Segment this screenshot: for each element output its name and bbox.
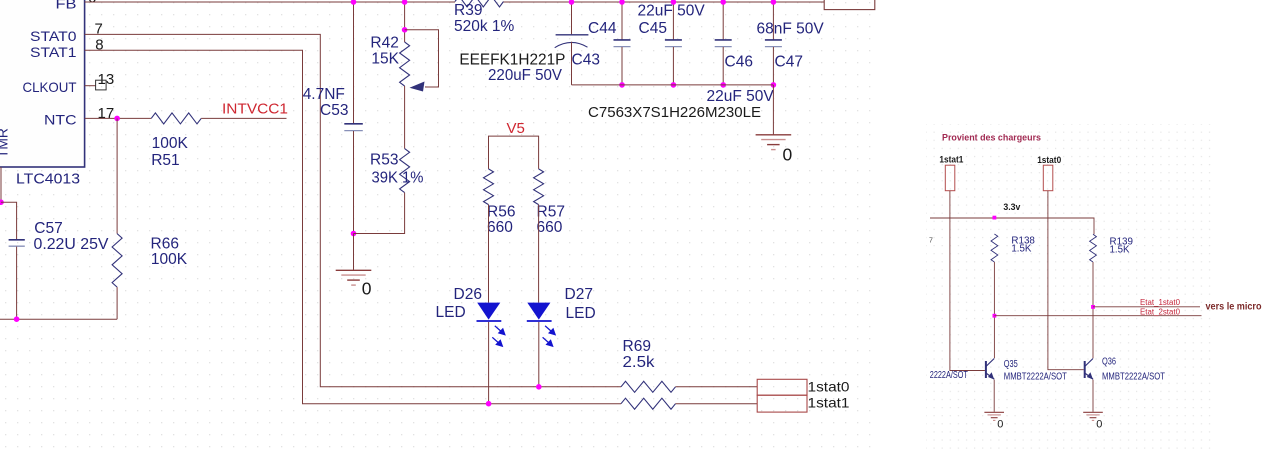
svg-text:MMBT2222A/SOT: MMBT2222A/SOT xyxy=(1004,372,1067,383)
svg-text:C57: C57 xyxy=(34,220,62,237)
svg-text:C43: C43 xyxy=(572,52,600,69)
off-page connector box top right xyxy=(824,0,875,10)
junction node C53 top xyxy=(351,0,357,5)
pin 13 unconnected square xyxy=(96,80,107,90)
svg-text:Etat_1stat0: Etat_1stat0 xyxy=(1140,298,1181,307)
wire to INTVCC1 xyxy=(201,117,286,119)
wire 1stat0 to Q36 base xyxy=(1048,191,1084,370)
grid dots sub sheet xyxy=(926,124,1212,452)
wire bottom left rail xyxy=(0,318,117,320)
svg-text:Provient des chargeurs: Provient des chargeurs xyxy=(942,132,1041,143)
svg-text:1stat1: 1stat1 xyxy=(808,394,850,410)
svg-text:R66: R66 xyxy=(151,236,179,253)
junction node R42 wiper xyxy=(402,27,408,33)
resistor R138 xyxy=(991,234,998,262)
svg-text:D27: D27 xyxy=(565,286,593,303)
ground symbol Q36 xyxy=(1083,411,1103,413)
off-page connector box 1stat0 xyxy=(757,379,807,395)
wire ground stub right xyxy=(772,85,774,135)
LED D26 light arrows xyxy=(492,326,505,346)
svg-text:C45: C45 xyxy=(639,20,667,37)
resistor R51 xyxy=(151,113,201,124)
wire R56 to D26 xyxy=(488,205,490,303)
pin TMR stub xyxy=(0,167,2,202)
svg-text:1.5K: 1.5K xyxy=(1110,244,1131,255)
wire NTC down to R66 xyxy=(116,118,118,233)
junction node TMR xyxy=(0,199,4,205)
wire C53 top xyxy=(353,2,355,123)
wire R57 to D27 xyxy=(538,205,540,303)
wire STAT1 to box xyxy=(676,403,758,405)
svg-text:R39: R39 xyxy=(454,2,482,19)
capacitor C46 xyxy=(722,2,724,40)
svg-text:NTC: NTC xyxy=(44,112,77,127)
wire between R42 R53 xyxy=(404,86,406,149)
capacitor C43 plate xyxy=(556,34,589,36)
svg-text:4.7NF: 4.7NF xyxy=(303,86,345,103)
svg-text:C47: C47 xyxy=(775,53,803,70)
off-page connector box 1stat1 xyxy=(757,395,807,412)
svg-text:39K 1%: 39K 1% xyxy=(372,170,424,187)
svg-text:R42: R42 xyxy=(370,34,398,51)
resistor R139 xyxy=(1090,234,1097,262)
svg-text:6: 6 xyxy=(88,0,96,7)
svg-text:C44: C44 xyxy=(588,20,617,37)
svg-text:TMR: TMR xyxy=(0,128,11,158)
wire NTC pin17 xyxy=(85,117,152,119)
wire V5 bracket xyxy=(489,136,539,169)
svg-text:LTC4013: LTC4013 xyxy=(16,171,80,188)
svg-text:EEEFK1H221P: EEEFK1H221P xyxy=(459,52,565,69)
wire net Etat_1stat0 xyxy=(1093,306,1200,308)
wire Q36 emitter to ground xyxy=(1092,380,1094,412)
svg-text:22uF 50V: 22uF 50V xyxy=(707,88,775,105)
capacitor C53 xyxy=(344,123,363,125)
resistor R42 xyxy=(400,42,410,86)
svg-text:22uF 50V: 22uF 50V xyxy=(638,3,706,20)
junction node C47 top xyxy=(771,0,777,5)
svg-text:1stat0: 1stat0 xyxy=(1037,155,1061,165)
ground symbol 0 (right) xyxy=(756,134,792,136)
junction node C46 bottom xyxy=(720,82,726,88)
svg-text:C7563X7S1H226M230LE: C7563X7S1H226M230LE xyxy=(588,104,761,121)
junction node C45 top xyxy=(671,0,677,5)
wire 1stat1 to Q35 base xyxy=(950,191,985,371)
junction node pin17 xyxy=(114,116,120,122)
svg-text:CLKOUT: CLKOUT xyxy=(23,80,78,95)
svg-text:220uF 50V: 220uF 50V xyxy=(488,67,563,84)
svg-text:STAT0: STAT0 xyxy=(30,29,77,44)
op-amp U1 LTC4013 IC body xyxy=(0,0,85,167)
junction node D27 bottom xyxy=(536,384,542,390)
wire C57 bottom xyxy=(16,247,18,320)
LED D27 cathode bar xyxy=(527,320,552,322)
LED D27 triangle xyxy=(527,303,550,320)
svg-text:R57: R57 xyxy=(537,203,565,220)
svg-text:0.22U 25V: 0.22U 25V xyxy=(34,236,110,253)
resistor R56 xyxy=(484,169,494,205)
wire net Etat_2stat0 xyxy=(994,315,1201,317)
wire C43 top lead xyxy=(571,2,573,34)
port box 1stat1 (sub) xyxy=(945,165,955,191)
wire D27 down xyxy=(538,322,540,387)
resistor R57 xyxy=(534,169,544,205)
wire FB rail right segment xyxy=(504,1,825,3)
capacitor C45 xyxy=(672,2,674,40)
svg-text:C46: C46 xyxy=(725,53,753,70)
svg-text:660: 660 xyxy=(487,219,513,236)
wire ground stub C53 xyxy=(353,234,355,270)
wire R42 top xyxy=(404,2,406,42)
transistor Q36 xyxy=(1084,361,1086,378)
svg-text:R56: R56 xyxy=(487,203,515,220)
resistor R39 xyxy=(455,0,504,7)
svg-text:8: 8 xyxy=(95,36,103,53)
svg-text:FB: FB xyxy=(56,0,77,12)
resistor R69 upper element xyxy=(621,381,676,392)
svg-text:100K: 100K xyxy=(151,251,188,268)
LED D26 triangle xyxy=(477,303,500,320)
svg-text:C53: C53 xyxy=(320,102,348,119)
wire Q35 emitter to ground xyxy=(993,380,995,412)
svg-text:660: 660 xyxy=(537,219,563,236)
svg-text:17: 17 xyxy=(98,105,115,122)
capacitor C44 xyxy=(621,2,623,40)
svg-text:R51: R51 xyxy=(151,152,179,169)
svg-text:100K: 100K xyxy=(152,135,189,152)
svg-text:0: 0 xyxy=(362,278,372,298)
svg-text:0: 0 xyxy=(1096,418,1102,430)
port box 1stat0 (sub) xyxy=(1043,165,1053,191)
junction node Etat_2stat0 xyxy=(993,314,997,318)
svg-text:68nF 50V: 68nF 50V xyxy=(757,20,825,37)
wire cap bank bottom rail xyxy=(572,84,774,86)
junction node Etat_1stat0 xyxy=(1091,305,1095,309)
svg-text:7: 7 xyxy=(929,238,933,245)
capacitor C43 curved plate xyxy=(555,42,588,47)
pin 13 stub xyxy=(85,85,96,87)
wire C43 bottom lead xyxy=(571,42,573,85)
svg-text:R69: R69 xyxy=(623,338,651,355)
svg-text:1stat0: 1stat0 xyxy=(808,378,850,394)
svg-text:15K: 15K xyxy=(371,51,399,68)
wiper wire loop xyxy=(405,30,439,87)
ground symbol Q35 xyxy=(984,411,1004,413)
wire STAT0 pin7 net xyxy=(85,34,621,386)
resistor R66 xyxy=(112,234,122,288)
junction node C43 top xyxy=(569,0,575,5)
svg-text:R53: R53 xyxy=(370,151,398,168)
svg-text:Q36: Q36 xyxy=(1102,356,1116,367)
LED D26 cathode bar xyxy=(477,320,502,322)
junction node C47 bottom xyxy=(771,82,777,88)
junction node D26 bottom xyxy=(486,401,492,407)
wire FB rail left segment xyxy=(85,1,455,3)
svg-text:2222A/SOT: 2222A/SOT xyxy=(930,370,968,381)
svg-text:INTVCC1: INTVCC1 xyxy=(222,102,288,118)
wire STAT1 pin8 net xyxy=(85,50,621,403)
svg-text:LED: LED xyxy=(566,305,596,322)
junction node C44 top xyxy=(619,0,625,5)
svg-text:2.5k: 2.5k xyxy=(623,354,655,371)
wire R53 bottom to junction xyxy=(354,193,405,234)
svg-text:Q35: Q35 xyxy=(1004,359,1018,370)
svg-text:3.3v: 3.3v xyxy=(1003,202,1021,212)
ground symbol 0 (left) xyxy=(336,269,372,271)
junction node C53/R53 xyxy=(351,231,357,237)
wire R66 bottom xyxy=(116,287,118,319)
svg-text:1stat1: 1stat1 xyxy=(939,154,963,164)
transistor Q35 xyxy=(985,361,987,378)
wiper arrow xyxy=(410,82,425,92)
wire 3.3v rail xyxy=(930,218,1094,234)
LED D27 light arrows xyxy=(543,326,556,346)
svg-text:0: 0 xyxy=(997,418,1003,430)
wire R138 to Q35 collector xyxy=(993,262,995,358)
wire D26 down xyxy=(488,322,490,404)
capacitor C47 xyxy=(772,2,774,40)
svg-text:520k 1%: 520k 1% xyxy=(454,18,515,35)
svg-text:0: 0 xyxy=(783,144,793,164)
junction node R42 top rail xyxy=(402,0,408,5)
junction node C46 top xyxy=(720,0,726,5)
junction node C45 bottom xyxy=(671,82,677,88)
svg-text:D26: D26 xyxy=(454,286,482,303)
svg-text:V5: V5 xyxy=(507,120,525,137)
svg-text:1.5K: 1.5K xyxy=(1011,244,1032,255)
svg-text:vers le micro: vers le micro xyxy=(1206,302,1262,313)
junction node C44 bottom xyxy=(619,82,625,88)
wire to C57 xyxy=(1,202,17,239)
grid dots main sheet xyxy=(0,0,874,452)
wire C53 bottom xyxy=(353,131,355,234)
svg-text:LED: LED xyxy=(436,304,466,321)
wire STAT0 to box xyxy=(676,386,758,388)
resistor R69 lower element xyxy=(621,398,676,409)
svg-text:STAT1: STAT1 xyxy=(30,45,77,60)
wire R139 to Q36 collector xyxy=(1092,262,1094,358)
junction node R138 top xyxy=(993,216,997,220)
capacitor C57 xyxy=(9,239,25,241)
svg-text:MMBT2222A/SOT: MMBT2222A/SOT xyxy=(1102,372,1165,383)
svg-text:Etat_2stat0: Etat_2stat0 xyxy=(1140,307,1181,316)
junction node C57 bottom xyxy=(14,316,20,322)
resistor R53 xyxy=(400,149,410,193)
